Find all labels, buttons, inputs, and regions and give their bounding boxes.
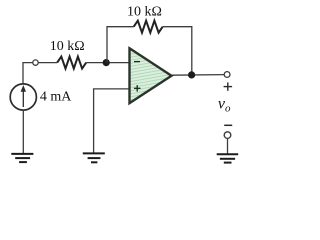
wire: op-amp output to output terminal	[172, 74, 225, 77]
wire: resistor R1 to op-amp inverting input (node A)	[86, 62, 129, 64]
svg-text:vo: vo	[218, 95, 231, 114]
label vo minus sign	[224, 124, 232, 126]
svg-text:10 kΩ: 10 kΩ	[50, 39, 85, 54]
op-amp inverting pin label (minus)	[134, 61, 140, 63]
wire: current source bottom to ground	[22, 110, 24, 154]
wire: input terminal to current source top	[23, 63, 33, 85]
ground (middle, under op-amp plus input)	[83, 153, 105, 162]
resistor R2 10 kOhm (feedback)	[134, 21, 163, 33]
current source I1 arrow	[22, 90, 24, 107]
output terminal (open circle, vo+)	[224, 72, 230, 78]
ground (left, under source)	[11, 154, 33, 162]
node A junction dot (inverting input node)	[103, 59, 110, 66]
resistor R1 10 kOhm (series)	[57, 57, 86, 69]
lower output terminal (open circle, vo-)	[224, 132, 231, 139]
op-amp U1 triangle	[130, 48, 172, 103]
op-amp non-inverting pin label (plus)	[134, 87, 141, 89]
wire: non-inverting input to ground riser	[94, 89, 130, 153]
node B junction dot (output node)	[188, 71, 195, 78]
wire: feedback right drop to output node	[163, 27, 192, 75]
input terminal (open circle)	[33, 60, 38, 65]
wire: lower terminal to ground	[227, 138, 229, 154]
svg-text:4 mA: 4 mA	[40, 89, 72, 104]
svg-text:10 kΩ: 10 kΩ	[127, 5, 162, 20]
wire: feedback left riser	[107, 27, 134, 63]
ground (right, under vo-)	[217, 154, 239, 162]
wire: input terminal to resistor R1	[38, 62, 57, 64]
current source I1 circle	[10, 84, 36, 110]
label vo plus sign	[224, 82, 233, 90]
